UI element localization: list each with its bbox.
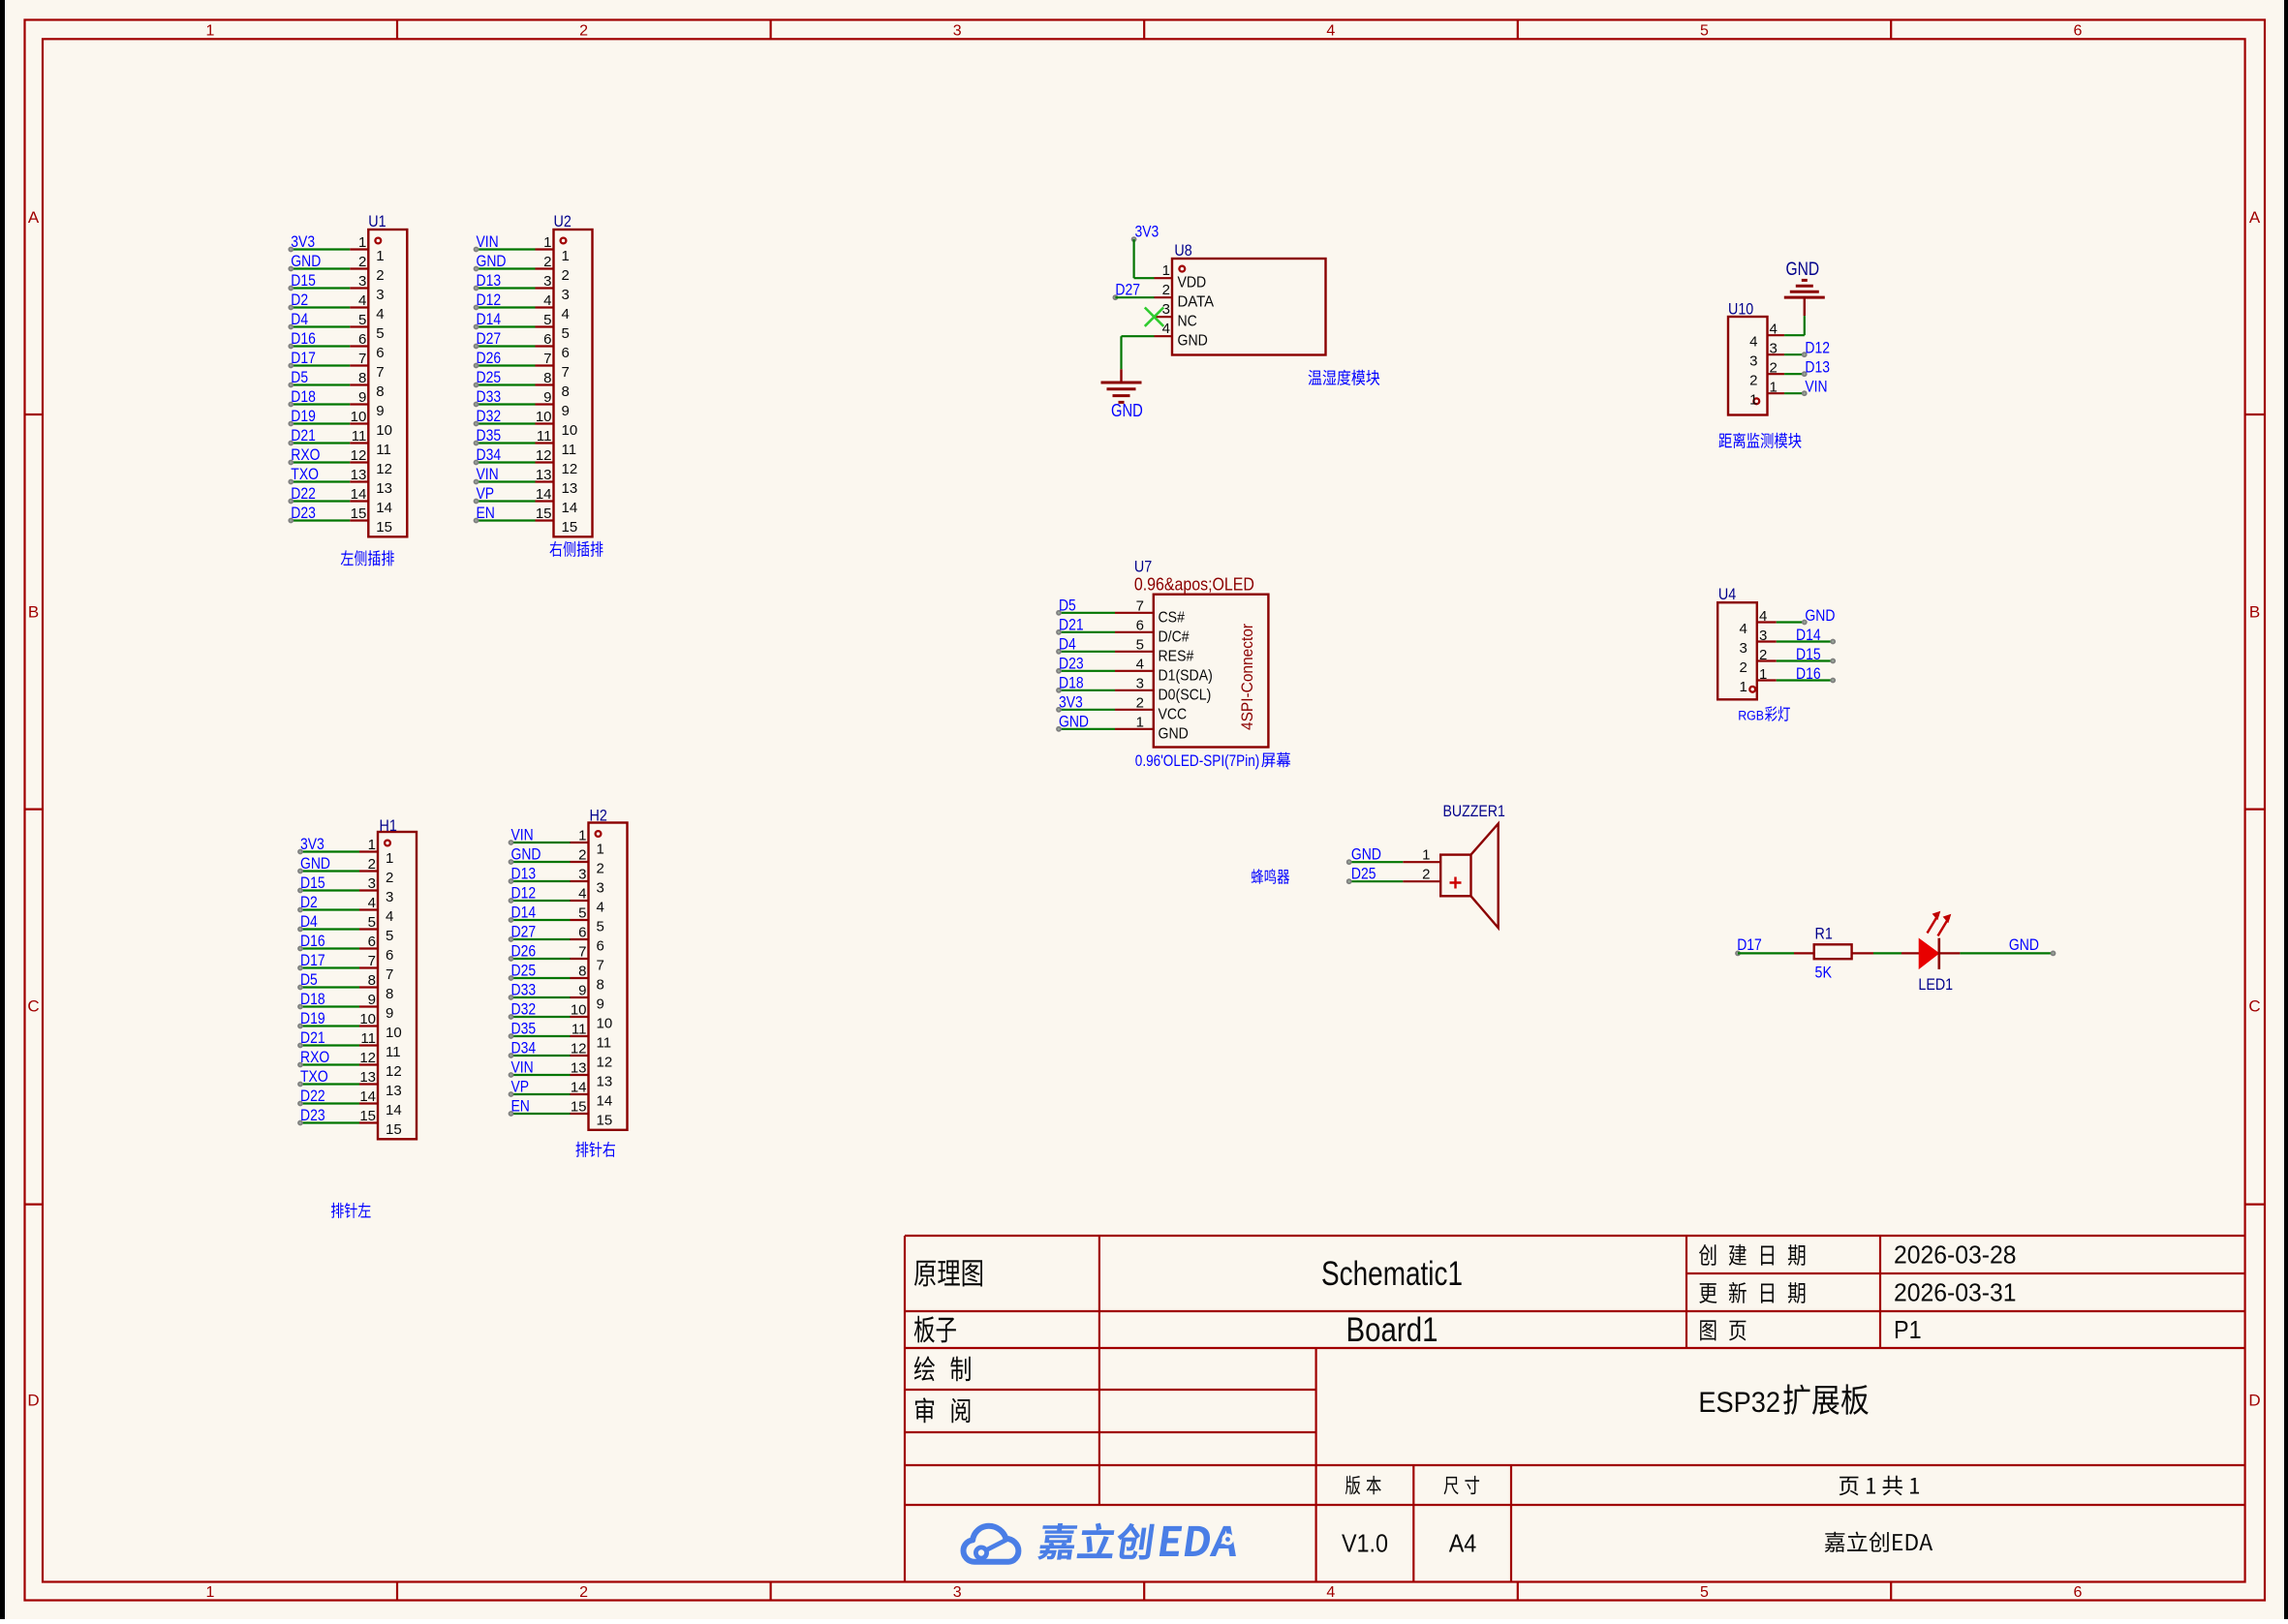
svg-text:2: 2 <box>358 254 366 270</box>
svg-text:D5: D5 <box>300 970 318 989</box>
svg-text:CS#: CS# <box>1159 609 1185 626</box>
U1 pin 7 wire D17 <box>288 349 384 381</box>
svg-text:2: 2 <box>543 254 551 270</box>
U2 pin 15 wire EN <box>474 504 578 536</box>
ground symbol GND under U8 <box>1101 369 1143 420</box>
svg-text:4: 4 <box>1136 656 1144 672</box>
title 更新日期 <box>1699 1282 1805 1303</box>
svg-text:D27: D27 <box>1115 281 1140 299</box>
H1 pin 9 wire D18 <box>297 990 393 1022</box>
svg-text:10: 10 <box>351 409 367 425</box>
svg-text:11: 11 <box>562 442 577 458</box>
svg-text:A: A <box>28 208 40 227</box>
svg-text:VP: VP <box>511 1078 530 1096</box>
component U8 body <box>1172 241 1326 355</box>
svg-text:15: 15 <box>571 1099 587 1116</box>
U2 pin 7 wire D26 <box>474 349 570 381</box>
svg-text:1: 1 <box>1136 714 1144 730</box>
svg-text:D/C#: D/C# <box>1159 628 1190 645</box>
svg-text:2: 2 <box>1739 659 1747 676</box>
svg-text:3V3: 3V3 <box>1135 223 1159 241</box>
svg-text:3: 3 <box>376 287 384 303</box>
svg-text:8: 8 <box>376 383 384 400</box>
svg-text:D15: D15 <box>1796 645 1821 663</box>
svg-text:D25: D25 <box>511 962 537 980</box>
U2 pin 12 wire D34 <box>474 445 578 477</box>
svg-text:4: 4 <box>1326 1584 1335 1601</box>
U2 pin 11 wire D35 <box>474 426 576 458</box>
wire 3V3 to U8 pin1 <box>1134 239 1155 278</box>
label 蜂鸣器 (BUZZER1) <box>1252 869 1289 884</box>
U1 pin 11 wire D21 <box>288 426 390 458</box>
svg-text:GND: GND <box>291 252 321 270</box>
U1 pin 8 wire D5 <box>288 368 384 400</box>
svg-text:1: 1 <box>543 234 551 251</box>
svg-text:2: 2 <box>1759 647 1767 663</box>
svg-text:1: 1 <box>206 23 215 40</box>
svg-text:D21: D21 <box>291 426 316 444</box>
svg-text:D14: D14 <box>1796 626 1821 644</box>
power flag GND above U10 <box>1784 260 1825 316</box>
svg-text:8: 8 <box>386 986 393 1002</box>
svg-text:12: 12 <box>376 461 392 477</box>
svg-text:9: 9 <box>386 1005 393 1022</box>
U1 pin 1 wire 3V3 <box>288 232 384 264</box>
U10 pin 1 <box>1749 380 1784 409</box>
H2 pin 1 wire VIN <box>509 826 604 858</box>
svg-text:6: 6 <box>376 345 384 361</box>
svg-text:12: 12 <box>562 461 578 477</box>
svg-text:D4: D4 <box>1059 634 1076 653</box>
svg-text:11: 11 <box>360 1030 376 1047</box>
U4 pin 2 wire D15 <box>1739 645 1836 676</box>
svg-text:13: 13 <box>386 1083 402 1099</box>
svg-text:H2: H2 <box>590 807 607 825</box>
svg-text:D18: D18 <box>300 990 325 1008</box>
U1 pin 4 wire D2 <box>288 291 384 322</box>
svg-text:13: 13 <box>571 1060 587 1077</box>
title 版本 <box>1345 1476 1381 1495</box>
svg-text:VIN: VIN <box>477 465 499 483</box>
svg-text:3: 3 <box>1739 640 1747 657</box>
svg-text:9: 9 <box>543 389 551 406</box>
svg-text:U7: U7 <box>1134 558 1152 576</box>
svg-text:14: 14 <box>562 500 578 516</box>
svg-text:4: 4 <box>562 306 570 322</box>
connector H1 <box>378 816 417 1139</box>
svg-text:2: 2 <box>1136 694 1144 711</box>
net label D27 <box>1113 281 1141 300</box>
svg-text:10: 10 <box>536 409 552 425</box>
svg-text:8: 8 <box>562 383 570 400</box>
svg-text:6: 6 <box>386 947 393 964</box>
svg-text:5: 5 <box>1700 1584 1709 1601</box>
svg-text:D25: D25 <box>477 368 502 386</box>
svg-text:U10: U10 <box>1728 300 1753 319</box>
svg-text:12: 12 <box>597 1055 613 1071</box>
svg-text:D22: D22 <box>291 484 316 503</box>
svg-text:NC: NC <box>1178 314 1197 330</box>
title 原理图 <box>914 1260 982 1286</box>
U1 pin 10 wire D19 <box>288 407 392 439</box>
svg-text:3: 3 <box>358 273 366 290</box>
svg-text:4: 4 <box>1749 334 1757 351</box>
svg-text:1: 1 <box>206 1584 215 1601</box>
svg-text:C: C <box>27 997 39 1016</box>
svg-text:D15: D15 <box>300 873 325 892</box>
svg-text:5: 5 <box>597 919 604 935</box>
wire LED1 to GND <box>1939 952 2054 954</box>
svg-text:C: C <box>2248 997 2260 1016</box>
svg-text:7: 7 <box>368 953 376 969</box>
text 嘉立创EDA bottom right <box>1825 1532 1932 1552</box>
svg-text:D21: D21 <box>1059 615 1084 633</box>
svg-text:GND: GND <box>300 854 330 873</box>
svg-text:D32: D32 <box>477 407 502 425</box>
label RGB彩灯 (U4) <box>1738 706 1790 722</box>
svg-text:D25: D25 <box>1351 865 1376 883</box>
svg-text:6: 6 <box>543 331 551 348</box>
H1 pin 15 wire D23 <box>297 1106 402 1138</box>
svg-text:6: 6 <box>2074 23 2083 40</box>
svg-text:3: 3 <box>1162 301 1170 318</box>
H2 pin 8 wire D25 <box>509 962 604 994</box>
U10 pin 4 <box>1749 322 1784 351</box>
svg-text:4: 4 <box>376 306 384 322</box>
svg-text:11: 11 <box>386 1044 401 1060</box>
connector U2 <box>554 212 593 536</box>
svg-text:5: 5 <box>543 312 551 328</box>
H1 pin 11 wire D21 <box>297 1028 400 1060</box>
svg-text:4: 4 <box>1162 321 1170 337</box>
svg-text:VIN: VIN <box>477 232 499 251</box>
svg-text:D16: D16 <box>1796 664 1821 683</box>
svg-text:D2: D2 <box>291 291 308 309</box>
svg-text:5: 5 <box>358 312 366 328</box>
svg-text:VIN: VIN <box>511 826 534 844</box>
svg-text:D: D <box>27 1392 39 1410</box>
title 尺寸 <box>1444 1476 1480 1494</box>
U2 pin 2 wire GND <box>474 252 570 284</box>
U2 pin 6 wire D27 <box>474 329 570 361</box>
title block grid <box>905 1236 2245 1582</box>
left screen edge black strip <box>0 0 5 1619</box>
svg-text:3: 3 <box>953 23 962 40</box>
U2 pin 10 wire D32 <box>474 407 578 439</box>
title 绘制 <box>914 1356 971 1381</box>
svg-text:3: 3 <box>1136 675 1144 691</box>
svg-text:VIN: VIN <box>511 1058 534 1077</box>
svg-text:D16: D16 <box>300 932 325 950</box>
wire R1 to LED1 <box>1852 952 1920 954</box>
svg-text:3: 3 <box>543 273 551 290</box>
svg-text:B: B <box>28 602 39 621</box>
svg-text:1: 1 <box>386 850 393 867</box>
wire D17 to R1 <box>1738 952 1814 954</box>
label 排针左 (H1) <box>331 1203 371 1218</box>
H1 pin 3 wire D15 <box>297 873 393 905</box>
svg-text:11: 11 <box>572 1022 587 1038</box>
svg-text:7: 7 <box>358 351 366 367</box>
svg-text:GND: GND <box>1111 401 1143 420</box>
svg-text:P1: P1 <box>1894 1315 1922 1344</box>
U2 pin 3 wire D13 <box>474 271 570 303</box>
wire D27 to U8 pin2 <box>1115 296 1154 298</box>
svg-text:1: 1 <box>578 828 586 844</box>
svg-text:U8: U8 <box>1174 241 1191 260</box>
JLC EDA logo cloud <box>964 1526 1019 1562</box>
title 图页 <box>1700 1320 1746 1340</box>
svg-text:D12: D12 <box>511 884 537 903</box>
U1 pin 6 wire D16 <box>288 329 384 361</box>
svg-text:U1: U1 <box>368 212 386 230</box>
svg-text:2: 2 <box>376 267 384 284</box>
svg-text:4: 4 <box>578 886 586 903</box>
svg-text:GND: GND <box>2009 935 2039 954</box>
svg-text:12: 12 <box>386 1063 402 1080</box>
svg-text:3: 3 <box>1759 628 1767 644</box>
H2 pin 7 wire D26 <box>509 942 604 974</box>
svg-text:15: 15 <box>386 1121 402 1138</box>
svg-text:D23: D23 <box>300 1106 325 1124</box>
U1 pin 3 wire D15 <box>288 271 384 303</box>
svg-text:VDD: VDD <box>1178 275 1207 291</box>
svg-text:U4: U4 <box>1718 585 1736 603</box>
svg-text:D14: D14 <box>511 904 537 922</box>
label 排针右 (H2) <box>576 1142 616 1157</box>
svg-text:15: 15 <box>376 519 392 536</box>
BUZZER1 pin 1 wire GND <box>1346 845 1440 865</box>
svg-text:D1(SDA): D1(SDA) <box>1159 667 1213 684</box>
svg-text:4: 4 <box>1759 608 1767 625</box>
H1 pin 14 wire D22 <box>297 1087 402 1118</box>
svg-text:2: 2 <box>579 1584 588 1601</box>
svg-text:6: 6 <box>2074 1584 2083 1601</box>
svg-text:15: 15 <box>562 519 578 536</box>
svg-text:D19: D19 <box>300 1009 325 1027</box>
svg-text:4: 4 <box>358 292 366 309</box>
svg-text:3: 3 <box>597 880 604 897</box>
svg-text:D17: D17 <box>1737 935 1762 954</box>
label 距离监测模块 (U10) <box>1719 433 1802 448</box>
svg-text:D12: D12 <box>477 291 502 309</box>
svg-text:4: 4 <box>543 292 551 309</box>
H2 pin 12 wire D34 <box>509 1039 613 1071</box>
svg-text:5: 5 <box>386 928 393 944</box>
U2 pin 14 wire VP <box>474 484 578 516</box>
svg-text:D22: D22 <box>300 1087 325 1105</box>
svg-text:B: B <box>2249 602 2260 621</box>
svg-text:10: 10 <box>571 1002 587 1019</box>
H1 pin 6 wire D16 <box>297 932 393 964</box>
svg-text:LED1: LED1 <box>1918 975 1953 994</box>
svg-text:0.96'OLED-SPI(7Pin): 0.96'OLED-SPI(7Pin) <box>1135 752 1260 770</box>
component U10 body <box>1728 300 1768 415</box>
U10 pin 2 <box>1749 360 1784 389</box>
svg-text:D5: D5 <box>291 368 308 386</box>
svg-text:VIN: VIN <box>1805 378 1827 396</box>
H2 pin 2 wire GND <box>509 845 604 877</box>
svg-text:V1.0: V1.0 <box>1342 1529 1388 1558</box>
svg-text:1: 1 <box>1162 262 1170 279</box>
label 0.96OLED-SPI(7Pin)屏幕 (U7) <box>1135 752 1291 770</box>
svg-text:2: 2 <box>368 856 376 873</box>
svg-text:DATA: DATA <box>1178 294 1215 311</box>
svg-text:D23: D23 <box>1059 654 1084 672</box>
svg-text:1: 1 <box>376 248 384 264</box>
svg-text:D13: D13 <box>511 865 537 883</box>
U1 pin 5 wire D4 <box>288 310 384 342</box>
svg-text:5: 5 <box>368 914 376 931</box>
svg-text:2: 2 <box>597 861 604 877</box>
svg-text:8: 8 <box>578 964 586 980</box>
title 审阅 <box>915 1397 970 1423</box>
title 板子 <box>914 1316 956 1343</box>
svg-text:7: 7 <box>1136 598 1144 614</box>
U2 pin 8 wire D25 <box>474 368 570 400</box>
svg-text:11: 11 <box>376 442 391 458</box>
H2 pin 6 wire D27 <box>509 923 604 955</box>
svg-text:13: 13 <box>376 480 392 497</box>
H1 pin 8 wire D5 <box>297 970 393 1002</box>
svg-text:6: 6 <box>578 925 586 941</box>
svg-text:13: 13 <box>359 1069 376 1086</box>
svg-text:2: 2 <box>1749 373 1757 389</box>
svg-text:D35: D35 <box>511 1020 537 1038</box>
svg-text:Schematic1: Schematic1 <box>1321 1255 1463 1293</box>
svg-text:EN: EN <box>477 504 495 522</box>
svg-text:1: 1 <box>562 248 570 264</box>
net label GND right of LED1 <box>2009 935 2056 956</box>
svg-text:15: 15 <box>351 506 367 522</box>
svg-text:14: 14 <box>376 500 392 516</box>
svg-text:7: 7 <box>562 364 570 381</box>
H2 pin 4 wire D12 <box>509 884 604 916</box>
svg-text:15: 15 <box>359 1108 376 1124</box>
svg-text:D26: D26 <box>511 942 537 961</box>
U2 pin 5 wire D14 <box>474 310 570 342</box>
svg-text:8: 8 <box>543 370 551 386</box>
svg-text:U2: U2 <box>554 212 572 230</box>
svg-text:GND: GND <box>1159 725 1189 742</box>
svg-text:D21: D21 <box>300 1028 325 1047</box>
svg-text:TXO: TXO <box>300 1067 328 1086</box>
svg-text:D4: D4 <box>291 310 308 328</box>
svg-text:A4: A4 <box>1449 1529 1477 1558</box>
H2 pin 13 wire VIN <box>509 1058 613 1090</box>
component U7 body <box>1134 558 1269 748</box>
svg-text:D34: D34 <box>477 445 502 464</box>
svg-text:14: 14 <box>536 486 552 503</box>
row letters <box>27 208 2260 1410</box>
svg-text:9: 9 <box>562 403 570 419</box>
U4 pin 3 wire D14 <box>1739 626 1836 657</box>
svg-text:5K: 5K <box>1815 964 1833 982</box>
svg-text:D32: D32 <box>511 1000 537 1019</box>
svg-text:GND: GND <box>1805 606 1835 625</box>
svg-text:15: 15 <box>597 1113 613 1129</box>
svg-text:11: 11 <box>597 1035 612 1052</box>
svg-text:4: 4 <box>1326 23 1335 40</box>
svg-text:13: 13 <box>562 480 578 497</box>
U8 pin 4 GND <box>1155 321 1208 350</box>
H1 pin 7 wire D17 <box>297 951 393 983</box>
U7 pin 6 D/C# wire D21 <box>1056 615 1190 645</box>
svg-text:8: 8 <box>368 972 376 989</box>
svg-text:GND: GND <box>1178 333 1208 350</box>
svg-text:12: 12 <box>351 447 367 464</box>
H2 pin 15 wire EN <box>509 1097 613 1129</box>
U8 pin 2 DATA <box>1155 282 1215 311</box>
H1 pin 10 wire D19 <box>297 1009 402 1041</box>
H1 pin 1 wire 3V3 <box>297 835 393 867</box>
svg-text:14: 14 <box>597 1093 613 1110</box>
svg-text:VCC: VCC <box>1159 706 1188 722</box>
svg-text:GND: GND <box>1059 712 1089 730</box>
label 右侧插排 (U2) <box>549 541 603 557</box>
JLC EDA logo text <box>1037 1523 1155 1560</box>
svg-text:3: 3 <box>368 875 376 892</box>
svg-text:11: 11 <box>352 428 367 444</box>
title 页 1 共 1 <box>1840 1476 1920 1496</box>
svg-text:4: 4 <box>597 900 604 916</box>
svg-text:8: 8 <box>597 977 604 994</box>
svg-text:D: D <box>2248 1392 2260 1410</box>
svg-text:12: 12 <box>359 1050 376 1066</box>
svg-text:D2: D2 <box>300 893 318 911</box>
svg-text:1: 1 <box>358 234 366 251</box>
svg-text:4: 4 <box>1770 322 1778 338</box>
U7 pin 3 D0(SCL) wire D18 <box>1056 673 1211 703</box>
U7 pin 5 RES# wire D4 <box>1056 634 1193 664</box>
svg-text:5: 5 <box>578 905 586 922</box>
svg-text:13: 13 <box>536 467 552 483</box>
U7 pin 4 D1(SDA) wire D23 <box>1056 654 1213 684</box>
svg-text:2026-03-28: 2026-03-28 <box>1894 1241 2017 1270</box>
svg-text:5: 5 <box>1136 636 1144 653</box>
svg-text:D17: D17 <box>300 951 325 969</box>
U4 pin 1 wire D16 <box>1739 664 1836 695</box>
svg-text:14: 14 <box>386 1102 402 1118</box>
svg-text:4: 4 <box>386 908 393 925</box>
wire and net label VIN at U10 <box>1784 378 1828 396</box>
column numbers <box>206 23 2083 1602</box>
svg-text:EN: EN <box>511 1097 530 1116</box>
svg-text:D16: D16 <box>291 329 316 348</box>
svg-text:D15: D15 <box>291 271 316 290</box>
svg-text:10: 10 <box>597 1016 613 1032</box>
U4 pin 4 wire GND <box>1739 606 1835 637</box>
U7 pin 2 VCC wire 3V3 <box>1056 692 1187 722</box>
H2 pin 11 wire D35 <box>509 1020 611 1052</box>
svg-text:RXO: RXO <box>300 1048 329 1066</box>
svg-text:3V3: 3V3 <box>300 835 325 853</box>
right screen edge black strip <box>2284 0 2288 1619</box>
svg-text:D35: D35 <box>477 426 502 444</box>
svg-text:3V3: 3V3 <box>291 232 315 251</box>
svg-text:D27: D27 <box>511 923 537 941</box>
H1 pin 12 wire RXO <box>297 1048 402 1080</box>
U7 pin 1 GND wire GND <box>1056 712 1189 742</box>
svg-text:3: 3 <box>578 867 586 883</box>
U10 pin 3 <box>1749 341 1784 370</box>
svg-text:ESP32: ESP32 <box>1698 1387 1780 1419</box>
U1 pin 15 wire D23 <box>288 504 392 536</box>
svg-text:9: 9 <box>368 992 376 1008</box>
svg-text:D13: D13 <box>1805 358 1830 377</box>
svg-text:9: 9 <box>358 389 366 406</box>
label 温湿度模块 (U8) <box>1309 370 1380 385</box>
